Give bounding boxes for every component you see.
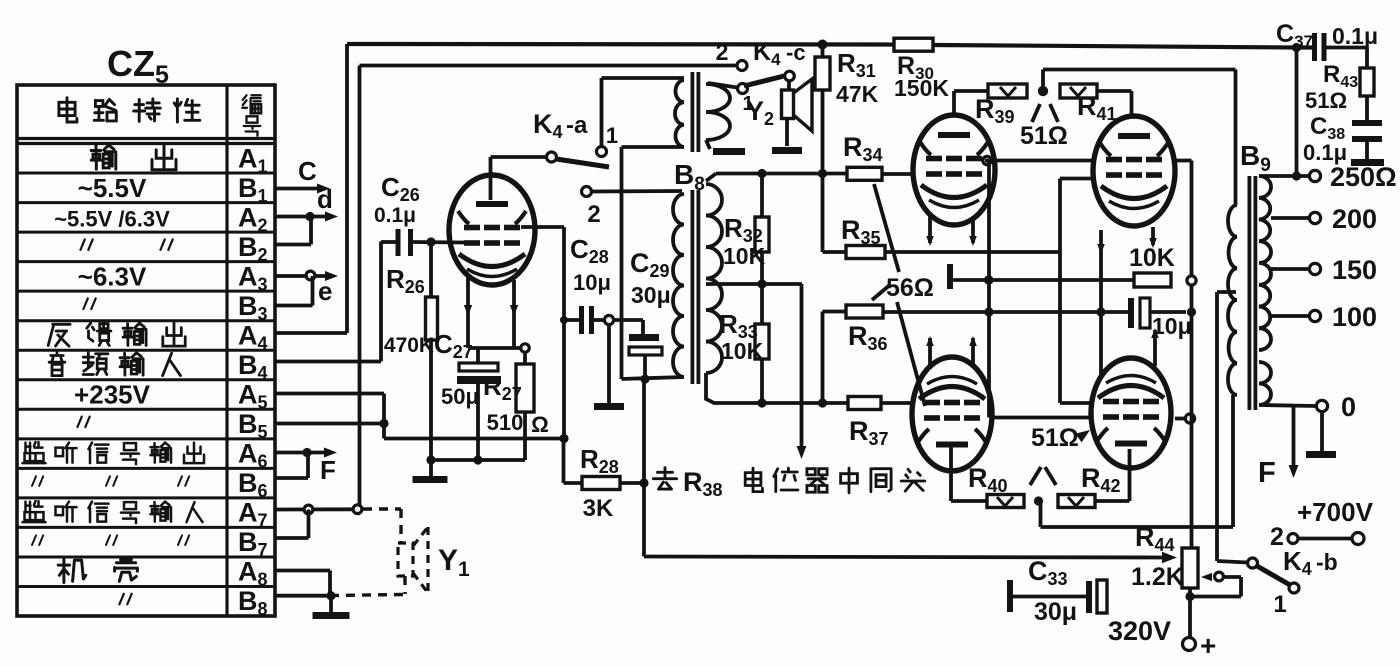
svg-text:+235V: +235V bbox=[74, 380, 151, 410]
svg-text:150: 150 bbox=[1332, 255, 1377, 285]
svg-text:10μ: 10μ bbox=[573, 270, 611, 295]
svg-text:200: 200 bbox=[1332, 204, 1377, 234]
svg-text:1.2K: 1.2K bbox=[1131, 563, 1184, 591]
svg-text:10K: 10K bbox=[1129, 244, 1175, 272]
svg-text:51Ω: 51Ω bbox=[1305, 88, 1347, 113]
svg-text:F: F bbox=[1258, 457, 1276, 489]
svg-text:~5.5V /6.3V: ~5.5V /6.3V bbox=[54, 206, 170, 231]
svg-text:0.1μ: 0.1μ bbox=[374, 204, 416, 227]
svg-text:10μ: 10μ bbox=[1152, 313, 1192, 339]
svg-text:2: 2 bbox=[716, 39, 729, 65]
svg-text:e: e bbox=[318, 276, 332, 306]
svg-text:510: 510 bbox=[487, 410, 524, 435]
svg-text:0: 0 bbox=[1341, 392, 1356, 422]
svg-text:50μ: 50μ bbox=[441, 384, 479, 409]
svg-text:10K: 10K bbox=[721, 338, 764, 364]
svg-text:150K: 150K bbox=[894, 75, 949, 101]
svg-text:+700V: +700V bbox=[1297, 497, 1374, 527]
svg-text:30μ: 30μ bbox=[1034, 598, 1077, 626]
svg-text:1: 1 bbox=[1273, 591, 1286, 618]
svg-text:51Ω: 51Ω bbox=[1031, 424, 1079, 452]
svg-text:-a: -a bbox=[566, 112, 588, 139]
svg-text:47K: 47K bbox=[836, 81, 879, 107]
svg-text:250Ω: 250Ω bbox=[1330, 162, 1397, 192]
svg-text:F: F bbox=[320, 455, 336, 485]
svg-text:51Ω: 51Ω bbox=[1020, 122, 1068, 150]
svg-text:10K: 10K bbox=[723, 243, 766, 269]
svg-text:0.1μ: 0.1μ bbox=[1303, 140, 1347, 165]
svg-text:-b: -b bbox=[1316, 549, 1338, 575]
svg-text:2: 2 bbox=[1270, 523, 1284, 551]
svg-text:3K: 3K bbox=[583, 495, 614, 522]
svg-text:~6.3V: ~6.3V bbox=[78, 261, 147, 291]
svg-text:470K: 470K bbox=[384, 334, 434, 357]
svg-text:-c: -c bbox=[786, 40, 806, 65]
svg-text:Ω: Ω bbox=[531, 412, 549, 437]
svg-text:56Ω: 56Ω bbox=[886, 274, 934, 302]
svg-text:320V: 320V bbox=[1108, 616, 1171, 646]
svg-text:0.1μ: 0.1μ bbox=[1332, 23, 1378, 49]
svg-text:2: 2 bbox=[587, 201, 600, 228]
svg-text:1: 1 bbox=[606, 123, 618, 148]
svg-text:+: + bbox=[1200, 630, 1216, 661]
svg-text:~5.5V: ~5.5V bbox=[78, 173, 147, 203]
svg-text:30μ: 30μ bbox=[631, 282, 671, 308]
svg-text:C: C bbox=[298, 156, 317, 186]
svg-text:100: 100 bbox=[1332, 302, 1377, 332]
svg-text:d: d bbox=[317, 184, 333, 214]
